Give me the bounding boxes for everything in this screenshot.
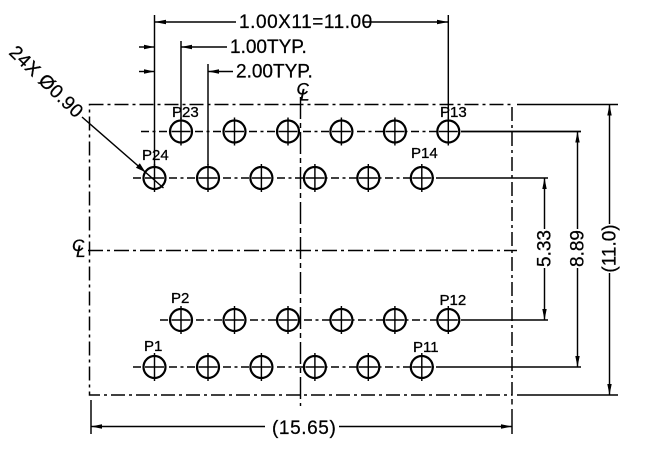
svg-text:8.89: 8.89 (568, 230, 589, 267)
hole P4 (224, 306, 246, 334)
svg-text:P14: P14 (411, 145, 438, 162)
hole P3 (197, 353, 219, 381)
hole P12 (437, 306, 459, 334)
dimension (11.0) (600, 105, 621, 396)
extension line x=154.5 (154, 15, 156, 166)
hole P1 (144, 353, 166, 381)
svg-text:P23: P23 (172, 104, 199, 121)
hole P14 (411, 164, 433, 192)
horizontal centerline (88, 250, 517, 252)
dimension 1.00X11=11.00 (155, 12, 449, 33)
centerline symbol left (72, 236, 85, 261)
board outline (phantom rectangle) (90, 105, 513, 396)
centerline symbol top (297, 80, 310, 105)
hole P22 (197, 164, 219, 192)
svg-text:2.00TYP.: 2.00TYP. (236, 62, 313, 83)
leader note 24X dia 0.90 (5, 42, 164, 188)
svg-text:P11: P11 (413, 339, 439, 356)
hole P10 (384, 306, 406, 334)
svg-text:P12: P12 (440, 292, 467, 309)
right leader row1 to 8.89 (461, 131, 581, 133)
hole P13 (437, 118, 459, 146)
extension line x=448.3 (447, 15, 449, 119)
svg-text:1.00TYP.: 1.00TYP. (230, 37, 307, 58)
hole P7 (304, 353, 326, 381)
dimension 2.00TYP. (139, 62, 313, 83)
hole P5 (250, 353, 272, 381)
row 4 centerline (133, 366, 434, 368)
right leader row4 to 8.89 (436, 366, 581, 368)
right leader row3 to 5.33 (461, 319, 548, 321)
svg-text:P24: P24 (142, 147, 169, 164)
right leader row2 to 5.33 (436, 177, 548, 179)
svg-text:P2: P2 (171, 290, 189, 307)
svg-text:P13: P13 (440, 104, 467, 121)
svg-text:(11.0): (11.0) (600, 224, 621, 272)
hole P21 (224, 118, 246, 146)
svg-text:1.00X11=11.00: 1.00X11=11.00 (239, 12, 373, 33)
hole P11 (411, 353, 433, 381)
hole P16 (357, 164, 379, 192)
row 2 centerline (133, 177, 434, 179)
svg-text:L: L (76, 242, 85, 261)
hole P15 (384, 118, 406, 146)
hole P19 (277, 118, 299, 146)
dimension (15.65) (91, 418, 512, 439)
extension line x=208 (207, 64, 209, 165)
hole P9 (357, 353, 379, 381)
dimension 5.33 (535, 178, 556, 320)
svg-text:(15.65): (15.65) (272, 418, 336, 439)
row 1 centerline (141, 131, 460, 133)
row 3 centerline (160, 319, 460, 321)
extension line x=181 (180, 41, 182, 119)
hole P17 (330, 118, 352, 146)
vertical centerline (300, 97, 302, 406)
hole P23 (170, 118, 192, 146)
hole P8 (330, 306, 352, 334)
hole P20 (250, 164, 272, 192)
dimension 1.00TYP. (139, 37, 307, 58)
left extension for (15.65) (90, 400, 92, 434)
top edge extension for (11.0) (517, 104, 618, 106)
dimension 8.89 (568, 132, 589, 368)
hole P2 (170, 306, 192, 334)
hole P18 (304, 164, 326, 192)
bottom edge extension for (11.0) (517, 394, 618, 396)
hole P6 (277, 306, 299, 334)
svg-text:L: L (300, 86, 309, 105)
svg-text:P1: P1 (144, 338, 162, 355)
hole P24 (144, 164, 166, 192)
right extension for (15.65) (511, 399, 513, 405)
svg-text:5.33: 5.33 (535, 230, 556, 267)
